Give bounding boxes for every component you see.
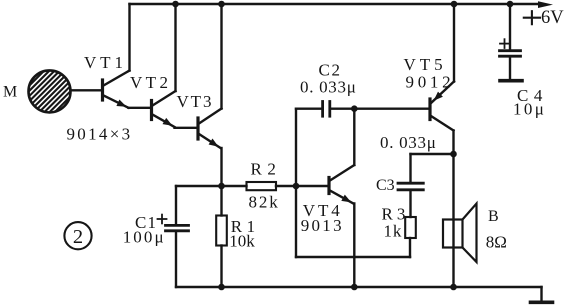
- svg-text:0. 033μ: 0. 033μ: [380, 133, 437, 152]
- wire mic to VT1 base: [71, 89, 103, 91]
- +6V supply arrow: [538, 1, 553, 8]
- wire feedback run to R3 bottom: [296, 256, 410, 258]
- figure number circled 2: [64, 222, 91, 249]
- wire junction to VT5 base: [354, 107, 429, 109]
- capacitor C1: [158, 186, 189, 287]
- junction VT5 emitter / rail: [451, 1, 458, 8]
- wire top +6V rail: [130, 3, 539, 5]
- svg-text:VT1: VT1: [84, 53, 127, 72]
- junction VT4 emitter / ground rail: [351, 284, 358, 291]
- wire VT4 collector up to C2 junction: [353, 109, 355, 165]
- junction VT5 collector / C3 branch: [450, 151, 457, 158]
- svg-text:8Ω: 8Ω: [486, 233, 507, 252]
- junction VT3 collector / rail: [218, 1, 225, 8]
- svg-text:VT3: VT3: [177, 92, 214, 111]
- svg-text:M: M: [3, 84, 17, 101]
- transistor VT5: [430, 82, 454, 131]
- wire VT5 collector down to speaker: [452, 131, 454, 288]
- microphone M: [0, 61, 116, 121]
- wire C2 left down to feedback run: [295, 109, 297, 257]
- capacitor C2: [296, 102, 354, 117]
- wire VT2 collector to rail: [174, 4, 176, 91]
- transistor VT4: [329, 165, 354, 204]
- svg-text:10μ: 10μ: [513, 100, 546, 119]
- svg-text:R2: R2: [251, 160, 282, 179]
- svg-text:9012: 9012: [406, 73, 455, 92]
- transistor VT2: [152, 91, 176, 127]
- ground bar under C4: [500, 79, 522, 83]
- wire VT3 collector to rail: [220, 4, 222, 109]
- svg-text:VT5: VT5: [404, 55, 447, 74]
- junction C2 / VT4 collector / VT5 base: [351, 105, 358, 112]
- speaker B: [443, 204, 477, 263]
- junction speaker / ground rail: [450, 284, 457, 291]
- resistor R1: [216, 186, 227, 287]
- wire VT5 collector to C3 top: [411, 153, 454, 155]
- svg-text:100μ: 100μ: [123, 228, 166, 247]
- resistor R2: [247, 182, 277, 190]
- wire VT4 emitter down to ground rail: [353, 204, 355, 288]
- capacitor C3: [398, 183, 423, 217]
- label +6V: [524, 8, 564, 28]
- junction VT2 collector / rail: [172, 1, 179, 8]
- transistor VT3: [198, 109, 222, 149]
- wire VT1 emitter to VT2 base: [129, 107, 152, 109]
- transistor VT1: [103, 71, 130, 108]
- svg-text:82k: 82k: [249, 192, 280, 211]
- svg-text:2: 2: [73, 226, 83, 248]
- wire VT5 emitter to rail: [453, 4, 455, 82]
- svg-text:C3: C3: [376, 177, 395, 194]
- svg-text:6V: 6V: [541, 8, 564, 28]
- wire R2 to VT4 base: [276, 185, 328, 187]
- resistor R3: [405, 217, 416, 238]
- wire ground rail drop: [540, 287, 542, 301]
- wire C1 top to node: [176, 185, 247, 187]
- svg-text:VT2: VT2: [130, 73, 171, 92]
- ground symbol: [531, 300, 553, 304]
- junction feedback line / VT4 base: [293, 183, 300, 190]
- wire VT2 emitter to VT3 base: [175, 127, 198, 129]
- wire VT1 collector to rail: [128, 4, 130, 71]
- svg-text:0. 033μ: 0. 033μ: [300, 78, 357, 97]
- junction R1 / ground rail: [218, 284, 225, 291]
- wire VT3 emitter down to node: [220, 148, 222, 186]
- svg-text:10k: 10k: [229, 232, 255, 251]
- junction VT3 emitter / R1 / R2 node: [218, 183, 225, 190]
- svg-text:9013: 9013: [301, 216, 344, 235]
- svg-text:9014×3: 9014×3: [67, 125, 133, 144]
- svg-text:B: B: [488, 208, 499, 225]
- wire bottom ground rail: [176, 286, 542, 288]
- svg-text:1k: 1k: [384, 222, 403, 241]
- capacitor C4: [500, 4, 521, 79]
- junction C4 / rail: [507, 1, 514, 8]
